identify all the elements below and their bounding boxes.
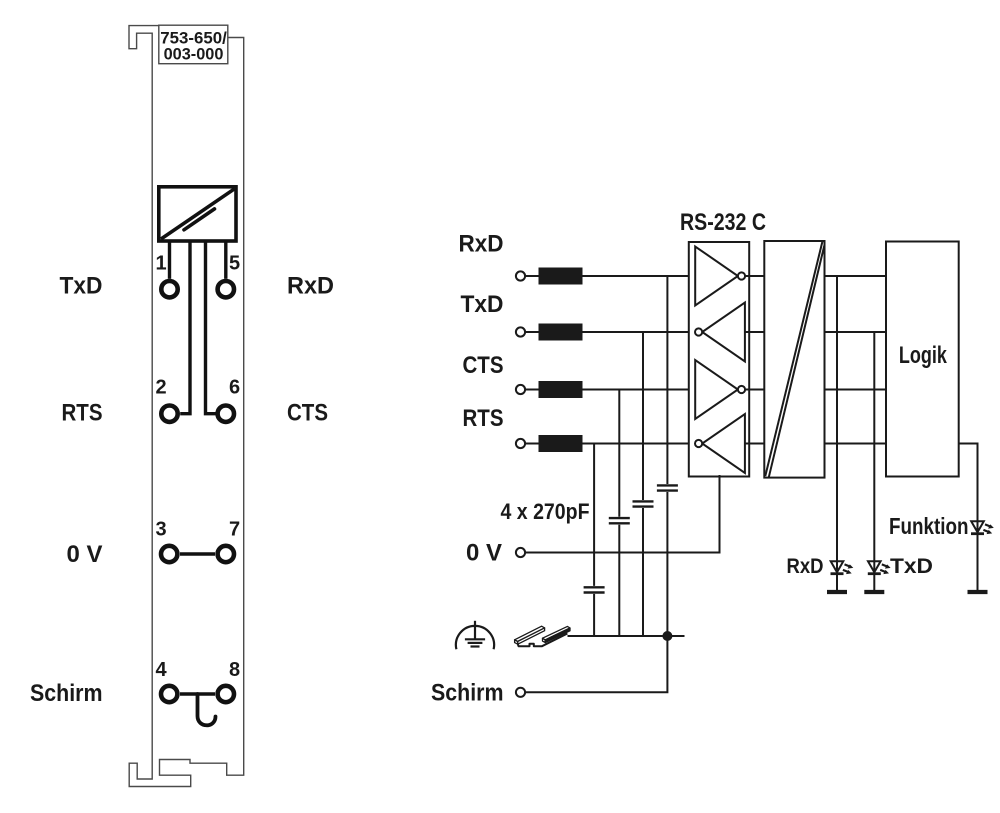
RS-232 driver box [689, 242, 749, 477]
svg-text:2: 2 [155, 377, 166, 399]
svg-text:RxD: RxD [459, 231, 504, 258]
terminal 6 [218, 406, 234, 422]
wire RS232 to isolator row1 [745, 275, 764, 277]
common bar LED Funktion [968, 590, 988, 594]
svg-text:TxD: TxD [60, 273, 103, 300]
buffer circle 4 [695, 440, 702, 447]
svg-text:Logik: Logik [899, 342, 947, 369]
LED TxD [868, 561, 891, 574]
electronics symbol U1 (box with diagonals) [159, 187, 236, 241]
lead wire to pin 1 [168, 241, 171, 279]
common bar LED RxD [827, 590, 847, 594]
terminal 5 [218, 281, 234, 297]
buffer circle 1 [738, 272, 745, 279]
ground rail wire [568, 635, 685, 637]
svg-text:0 V: 0 V [67, 541, 104, 568]
wire LED Funktion [959, 444, 978, 593]
terminal 8 [218, 686, 234, 702]
buffer circle 3 [738, 386, 745, 393]
svg-text:5: 5 [229, 252, 240, 274]
terminal 1 [161, 281, 177, 297]
svg-text:RxD: RxD [287, 273, 334, 300]
input terminal RxD [516, 271, 525, 280]
svg-text:1: 1 [155, 252, 166, 274]
terminal 3 [161, 546, 177, 562]
svg-text:Schirm: Schirm [30, 680, 103, 707]
svg-text:3: 3 [155, 518, 166, 540]
buffer triangle 2 (TxD) [702, 303, 745, 362]
capacitor line C2 (from CTS row) [609, 390, 630, 637]
svg-text:003-000: 003-000 [164, 46, 224, 64]
buffer circle 2 [695, 328, 702, 335]
wire isolator to Logik row1 [825, 275, 886, 277]
module outline (753 series bus terminal silhouette) [129, 26, 244, 787]
input terminal TxD [516, 327, 525, 336]
svg-text:CTS: CTS [463, 352, 504, 379]
svg-text:RS-232 C: RS-232 C [680, 209, 766, 236]
buffer triangle 4 (RTS) [702, 414, 745, 473]
lead wire to pin 6 [206, 241, 216, 414]
wire isolator to Logik row3 [825, 389, 886, 391]
input terminal 0 V [516, 548, 525, 557]
terminal 2 [161, 406, 177, 422]
capacitor line C1 (from RTS row) [584, 444, 605, 637]
terminal 4 [161, 686, 177, 702]
wire 0 V [525, 475, 719, 553]
svg-text:TxD: TxD [461, 291, 504, 318]
svg-text:RTS: RTS [62, 400, 103, 427]
buffer triangle 3 (CTS) [695, 360, 738, 419]
isolator box [764, 241, 824, 478]
shield hook on wire 4-8 [198, 694, 216, 725]
Logik box [886, 242, 959, 477]
svg-text:TxD: TxD [890, 554, 933, 578]
wire RxD row [525, 275, 695, 277]
wire isolator to Logik row2 [825, 331, 886, 333]
wire LED TxD [873, 332, 875, 592]
svg-text:8: 8 [229, 659, 240, 681]
input terminal RTS [516, 439, 525, 448]
filter resistor RxD [539, 268, 583, 285]
wire RS232 to isolator row2 [745, 331, 764, 333]
wire TxD row [525, 331, 695, 333]
input terminal CTS [516, 385, 525, 394]
lead wire to pin 2 [180, 241, 190, 414]
filter resistor TxD [539, 324, 583, 341]
buffer triangle 1 (RxD) [695, 247, 738, 306]
svg-text:CTS: CTS [287, 400, 328, 427]
svg-text:Funktion: Funktion [889, 513, 969, 539]
svg-text:4 x 270pF: 4 x 270pF [501, 499, 590, 524]
label box 753-650/003-000 [159, 25, 228, 64]
svg-text:0 V: 0 V [466, 540, 503, 567]
svg-text:6: 6 [229, 377, 240, 399]
DIN rail icon [515, 626, 570, 646]
lead wire to pin 5 [224, 241, 227, 279]
wire RS232 to isolator row3 [745, 389, 764, 391]
common bar LED TxD [864, 590, 884, 594]
svg-text:Schirm: Schirm [431, 680, 504, 707]
functional earth symbol [456, 621, 494, 650]
LED Funktion [971, 521, 994, 534]
filter resistor CTS [539, 381, 583, 398]
wire RTS row [525, 443, 695, 445]
capacitor line C4 (from RxD row) [657, 276, 678, 636]
wire isolator to Logik row4 [825, 443, 886, 445]
wire CTS row [525, 389, 695, 391]
input terminal Schirm [516, 688, 525, 697]
wire Schirm [525, 636, 667, 692]
capacitor line C3 (from TxD row) [633, 332, 654, 636]
svg-text:RxD: RxD [787, 554, 824, 578]
svg-text:7: 7 [229, 518, 240, 540]
junction dot [662, 631, 672, 641]
filter resistor RTS [539, 435, 583, 452]
wire RS232 to isolator row4 [745, 443, 764, 445]
jumper wire 4-8 [180, 692, 215, 696]
wire LED RxD [836, 276, 838, 592]
svg-text:RTS: RTS [463, 405, 504, 432]
svg-text:4: 4 [155, 659, 167, 681]
terminal 7 [218, 546, 234, 562]
LED RxD [831, 561, 854, 574]
jumper wire 3-7 [180, 552, 215, 555]
